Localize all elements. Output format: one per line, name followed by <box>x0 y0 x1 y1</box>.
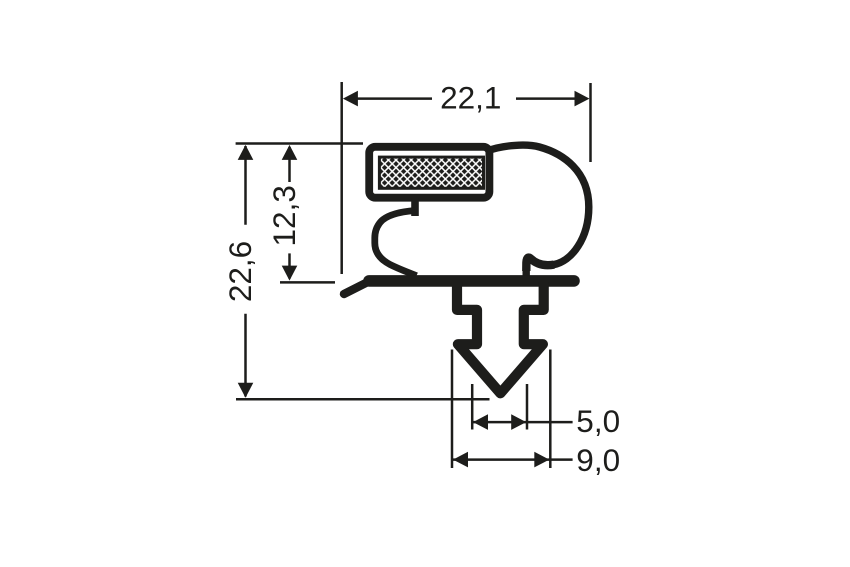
arrow right 22,1 <box>575 91 590 107</box>
extension line top (22,6 / 12,3 upper reference) <box>236 142 363 145</box>
extension line 12,3 lower reference <box>280 281 335 284</box>
arrow up 12,3 <box>282 145 298 160</box>
svg-text:5,0: 5,0 <box>576 403 620 439</box>
gasket profile: spear anchor foot <box>457 282 544 393</box>
extension line bottom (22,6 lower reference) <box>236 398 490 401</box>
dimension 9,0 line <box>452 458 573 461</box>
extension line 5,0 left <box>471 384 474 430</box>
arrow right 5,0 <box>511 414 526 430</box>
arrow left 9,0 <box>453 452 468 468</box>
arrow down 22,6 <box>238 383 254 398</box>
gasket profile: magnet housing outer shell <box>369 147 489 198</box>
svg-text:12,3: 12,3 <box>266 185 302 246</box>
gasket profile: stem under housing <box>411 198 419 216</box>
svg-text:22,1: 22,1 <box>440 80 501 116</box>
dimension 5,0 line <box>472 421 572 424</box>
gasket profile: lip tail <box>344 281 370 294</box>
nose hook reinforcement <box>526 258 554 271</box>
svg-text:9,0: 9,0 <box>576 442 620 478</box>
arrow left 22,1 <box>343 91 358 107</box>
arrow up 22,6 <box>238 145 254 160</box>
gasket profile: flange bar <box>369 275 574 287</box>
extension line 22,1 right <box>589 83 592 162</box>
dimension 22,6 vertical line <box>244 146 247 225</box>
extension line 5,0 right <box>526 384 529 430</box>
gasket profile: nose loop (right balloon) <box>487 145 589 277</box>
dimension 22,1 horizontal line <box>356 97 432 100</box>
arrow left 5,0 <box>473 414 488 430</box>
arrow down 12,3 <box>282 266 298 281</box>
gasket profile: bellows (left wave) <box>375 211 417 276</box>
arrow right 9,0 <box>534 452 549 468</box>
extension line 22,1 left <box>340 82 343 274</box>
magnet core with crosshatch <box>379 157 483 188</box>
svg-text:22,6: 22,6 <box>222 241 258 302</box>
extension line 9,0 right <box>549 350 552 469</box>
dimension 12,3 vertical line <box>288 147 291 182</box>
extension line 9,0 left <box>451 350 454 469</box>
